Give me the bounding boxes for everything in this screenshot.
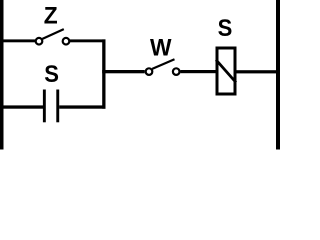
switch Z left contact [36, 38, 43, 45]
svg-text:S: S [44, 60, 59, 87]
svg-text:S: S [218, 14, 233, 41]
wire: vertical connector joining both branches [102, 39, 105, 108]
contact S right plate [56, 90, 59, 123]
switch W right contact [173, 68, 180, 75]
switch Z right contact [63, 38, 70, 45]
wire: left rail to switch Z [3, 39, 35, 42]
switch W blade [152, 59, 174, 69]
switch W left contact [146, 68, 153, 75]
right supply rail [276, 0, 280, 150]
left supply rail [0, 0, 4, 150]
contact S left plate [43, 90, 46, 123]
relay coil S body [217, 48, 235, 94]
wire: contact S to corner [59, 105, 105, 108]
wire: junction to switch W [102, 70, 145, 73]
wire: switch W to relay coil S [181, 70, 217, 73]
wire: switch Z to corner [70, 39, 106, 42]
svg-text:Z: Z [44, 3, 58, 30]
wire: left rail to contact S [3, 105, 43, 108]
switch Z blade [42, 29, 63, 39]
relay coil S diagonal stroke [216, 60, 236, 83]
wire: relay coil S to right rail [237, 70, 277, 73]
svg-text:W: W [150, 35, 172, 62]
